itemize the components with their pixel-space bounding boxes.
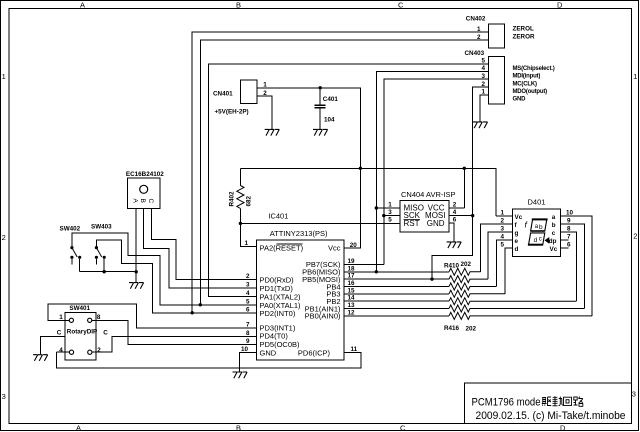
svg-text:MS(Chipselect.): MS(Chipselect.) [513,66,555,72]
wire D401 pin3 g to row2 [488,232,512,279]
wire D401 pin2 f to row1 [481,224,513,272]
node SW403 common joins rail [103,270,106,273]
resistor R414 [449,298,576,305]
svg-text:4: 4 [59,347,63,354]
svg-text:SW403: SW403 [91,224,112,231]
connector CN404 AVR-ISP [388,190,457,232]
node MISO branch on pin18 net [375,270,378,273]
svg-text:4: 4 [501,234,505,241]
svg-text:1: 1 [501,210,505,217]
wire CN404 pin1 MISO stub [376,207,400,209]
switch SW403 [91,224,112,272]
svg-text:682: 682 [246,195,253,206]
wire SW401 pin8 to IC PD5 [92,320,257,344]
wire CN401 pin1 +5V feed [257,88,360,248]
title block [465,383,632,423]
svg-text:3: 3 [501,226,505,233]
svg-text:4: 4 [246,290,250,297]
svg-text:ZEROL: ZEROL [513,26,534,33]
resistor R402 [229,168,257,246]
svg-text:1: 1 [263,81,267,88]
svg-text:9: 9 [567,218,571,225]
svg-text:B: B [236,0,241,9]
wire IC401 pin11 PD6(ICP) to SW401 pin4 [57,352,361,368]
svg-text:D: D [557,0,563,9]
ground below CN403 pin1 [473,122,488,128]
display D401 [501,197,574,256]
svg-text:C: C [147,199,154,204]
svg-text:1: 1 [388,201,392,208]
svg-text:2: 2 [97,347,101,354]
svg-text:4: 4 [453,209,457,216]
svg-text:C401: C401 [323,96,339,103]
svg-text:CN402: CN402 [466,16,486,23]
resistor R410 [449,268,481,275]
wire CN402 pin2 to node ZEROR column [200,40,488,305]
svg-text:14: 14 [348,295,356,302]
resistor R416 [449,312,592,319]
wire D401 pin7 dp stub [561,239,569,241]
svg-text:2: 2 [2,233,6,242]
op IC401 ATTINY2313 [241,212,358,361]
kanji 路 [574,397,583,407]
wire IC401 pin13 row6 [344,308,449,310]
svg-text:D: D [560,424,566,432]
wire CN403 pin2 MDO column [432,87,489,279]
wire IC401 pin10 GND to ground [240,353,257,372]
resistor R415 [449,305,584,312]
svg-text:c: c [552,230,556,237]
node C401 top junction [319,86,322,89]
wire D401 pin9 b to row6 [561,224,585,309]
svg-text:MDI(input): MDI(input) [513,74,541,80]
wire CN404 VCC drop [463,168,465,208]
svg-text:Vc: Vc [515,214,523,221]
svg-text:RST: RST [404,219,420,228]
node SCK column joins pin3 stub [382,214,385,217]
node MOSI net joins row2 [430,277,433,280]
svg-text:MDO(output): MDO(output) [513,89,548,95]
wire D401 pin5 d to row4 [505,248,512,294]
svg-text:D401: D401 [528,197,546,206]
wire CN403 pin4 MDI column [376,71,488,271]
svg-text:20: 20 [350,242,358,249]
svg-text:C: C [103,330,108,337]
svg-text:Vcc: Vcc [328,243,341,252]
svg-text:d: d [515,246,519,253]
svg-text:1: 1 [2,72,6,81]
svg-text:A: A [76,424,81,432]
switch SW401 rotary DIP [57,305,109,360]
svg-text:2: 2 [501,218,505,225]
svg-text:ZEROR: ZEROR [513,33,535,40]
wire SW403 pole to IC PD2 [97,240,257,313]
wire IC401 pin16 row3 [344,286,449,288]
svg-text:PB0(AIN0): PB0(AIN0) [305,312,341,321]
wire IC401 pin12 row7 [344,315,449,317]
wire CN404 pin4 MOSI stub [449,215,473,217]
wire SW401 pin2 to IC PD4 [92,336,257,352]
svg-text:PD2(INT0): PD2(INT0) [260,309,296,318]
svg-text:R402: R402 [229,191,236,207]
svg-text:A: A [80,0,85,9]
ground below IC401 GND [233,372,248,378]
svg-text:10: 10 [566,210,574,217]
svg-text:a: a [552,214,556,221]
svg-text:2: 2 [453,201,457,208]
svg-text:7: 7 [567,234,571,241]
svg-text:17: 17 [348,273,356,280]
svg-text:8: 8 [567,226,571,233]
wire RESET net to CN404 RST [240,222,400,224]
wire IC401 pin19 SCK stub [344,263,384,265]
connector CN403 [489,56,505,104]
svg-text:R416: R416 [444,325,460,332]
svg-text:16: 16 [348,280,356,287]
svg-text:Vc: Vc [550,246,558,253]
wire switch common rail to encoder ground [80,271,137,273]
ground left of SW401 [33,355,48,361]
wire CN402 pin1 to node ZEROL column [192,32,488,313]
wire encoder pin A to common ground rail [135,209,137,283]
node ZEROL joins PD2 row [191,311,194,314]
wire CN403 pin5 MS to IC PA1 [209,64,489,297]
svg-text:GND: GND [260,348,277,357]
svg-text:EC16B24102: EC16B24102 [126,171,164,178]
svg-text:12: 12 [348,309,356,316]
svg-text:SW401: SW401 [69,305,90,312]
svg-text:10: 10 [241,346,249,353]
svg-text:ATTINY2313(PS): ATTINY2313(PS) [270,229,328,238]
svg-text:CN404 AVR-ISP: CN404 AVR-ISP [401,190,455,199]
node Vcc rail / CN401 feed junction [359,167,362,170]
node common rail joins encoder pin A [135,270,138,273]
svg-text:6: 6 [567,242,571,249]
svg-text:1: 1 [633,72,637,81]
kanji 回 [564,397,572,405]
svg-text:15: 15 [348,287,356,294]
svg-text:B: B [139,199,146,203]
wire D401 pin4 e to row3 [496,240,512,287]
svg-text:C: C [57,330,62,337]
svg-text:202: 202 [466,325,477,332]
svg-text:CN403: CN403 [465,50,485,57]
svg-text:8: 8 [246,330,250,337]
connector CN401 [241,80,258,104]
ground below CN401 pin2 [265,129,280,135]
node MISO column crosses pin1 stub [375,206,378,209]
wire IC401 pin15 row4 [344,293,449,295]
svg-text:202: 202 [461,261,472,268]
svg-text:2: 2 [633,231,637,240]
svg-text:CN401: CN401 [213,90,233,97]
wire SW402 pole to IC PA0 [72,233,256,305]
svg-text:c: c [539,237,542,243]
wire IC401 pin17 row2 [344,278,449,280]
svg-text:b: b [539,224,543,231]
resistor R412 [449,283,496,290]
wire D401 pin6 Vc stub [561,247,569,249]
svg-text:RotaryDIP: RotaryDIP [67,328,97,335]
svg-text:2009.02.15. (c) Mi-Take/t.mino: 2009.02.15. (c) Mi-Take/t.minobe [476,410,626,422]
svg-text:MC(CLK): MC(CLK) [513,81,537,87]
svg-text:5: 5 [501,242,505,249]
svg-text:PD6(ICP): PD6(ICP) [298,348,331,357]
svg-text:C: C [398,0,404,9]
svg-text:GND: GND [427,219,445,228]
connector CN402 [489,24,505,48]
resistor R413 [449,290,505,297]
svg-text:g: g [515,230,519,237]
wire CN404 pin6 GND to ground [449,223,454,241]
wire CN404 pin3 SCK stub [384,215,400,217]
resistor R411 [449,276,488,283]
capacitor C401 [315,86,339,129]
svg-text:5: 5 [246,298,250,305]
D401 seven-segment glyph [525,219,550,244]
svg-text:A: A [131,199,138,204]
switch SW402 [60,225,82,271]
node Vcc rail / CN404 VCC junction [463,167,466,170]
svg-text:e: e [515,238,519,245]
svg-text:6: 6 [453,216,457,223]
svg-text:b: b [552,222,556,229]
kanji 動 [553,396,563,406]
wire D401 pin10 a to row7 [561,216,593,316]
svg-text:PA2(RESET): PA2(RESET) [260,243,304,252]
wire D401 pin8 c to row5 [561,232,577,301]
svg-text:GND: GND [513,97,527,103]
resistor bank R410-R416 202 [444,261,592,332]
svg-text:104: 104 [324,116,335,123]
kanji 駆 [542,397,551,406]
wire CN403 pin3 MC column [384,79,489,264]
wire CN404 pin2 VCC stub [449,207,464,209]
wire IC401 pin18 row1 [344,271,449,273]
node RESET junction at R402 bottom [239,222,242,225]
svg-text:3: 3 [388,209,392,216]
wire IC401 pin14 row5 [344,300,449,302]
svg-text:3: 3 [2,392,6,401]
svg-text:PCM1796 mode: PCM1796 mode [472,397,541,409]
node ZEROR joins PA0 row [199,303,202,306]
svg-text:5: 5 [388,216,392,223]
Vcc rail across top of IC [240,168,496,216]
wire SW401 pin4 stub [57,351,70,353]
svg-text:d: d [534,237,538,244]
rotary encoder EC16B24102 [126,171,164,209]
svg-text:+5V(EH-2P): +5V(EH-2P) [215,109,249,116]
svg-text:C: C [400,424,406,432]
wire SW401 pin1 to IC PD3 [48,304,256,328]
svg-text:B: B [236,424,241,432]
wire SW401 common C to ground [40,337,65,355]
svg-text:dp: dp [549,238,557,245]
wire CN401 pin2 to ground [257,96,272,129]
svg-text:SW402: SW402 [60,225,81,232]
svg-text:13: 13 [348,302,356,309]
node MDO column joins pin4 stub [471,214,474,217]
svg-text:IC401: IC401 [268,212,288,221]
wire encoder pin B to IC PD1 [144,209,257,288]
svg-text:9: 9 [246,338,250,345]
ground below C401 [313,129,328,135]
wire encoder pin C to IC PD0 [152,209,257,280]
svg-text:3: 3 [246,281,250,288]
svg-text:3: 3 [632,390,636,399]
wire CN403 pin1 to ground [480,95,488,122]
ground below CN404 GND [447,242,462,248]
svg-text:1: 1 [245,240,249,247]
wire D401 pin1 Vc stub [496,215,512,217]
ground below encoder common [129,283,144,289]
